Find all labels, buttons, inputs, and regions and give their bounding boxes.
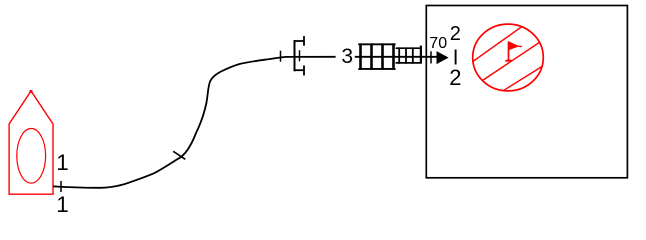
tee marker T1 (red pentagon) xyxy=(9,91,53,194)
separator line between labels 2 and 2 xyxy=(455,50,457,65)
bracket top arm tick xyxy=(303,36,305,46)
bracket bottom arm tick xyxy=(303,66,305,76)
small ladder end bar xyxy=(420,46,422,64)
bracket bottom arm xyxy=(295,69,305,71)
big ladder bars xyxy=(359,43,362,69)
label 70 xyxy=(429,35,447,53)
wire W1 (curved path from tee to straight run) xyxy=(53,57,336,188)
tee apex dot xyxy=(29,90,32,93)
flag pole xyxy=(508,42,510,61)
flag pennant xyxy=(509,41,520,50)
bracket top arm xyxy=(295,40,305,42)
wire W2 (from label 3 to arrow) xyxy=(355,56,446,58)
bracket symbol (spine) xyxy=(294,40,296,71)
tick mark on curve xyxy=(173,151,185,159)
label 1 (upper, at tee) xyxy=(56,150,68,176)
green G1 (red hatched circle) xyxy=(473,24,544,91)
hatch lines inside green xyxy=(468,25,543,91)
label 2 (upper) xyxy=(450,23,461,46)
small ladder bars xyxy=(398,47,400,63)
tee ellipse xyxy=(17,129,46,184)
tick mark at tee connection xyxy=(60,181,62,192)
label 1 (lower, at tee) xyxy=(56,192,68,218)
flag base xyxy=(505,60,511,62)
bracket middle tick xyxy=(299,50,301,61)
label 3 (on wire) xyxy=(341,45,353,69)
arrowhead A1 xyxy=(437,52,448,63)
label 2 (lower) xyxy=(449,65,461,91)
tick mark before bracket xyxy=(280,51,282,62)
small ladder symbol (rails) xyxy=(396,47,421,49)
tick mark inside box xyxy=(430,51,432,63)
flag pennant tail xyxy=(519,45,523,47)
boundary box B1 xyxy=(426,6,627,178)
big ladder symbol (rails) xyxy=(358,43,395,45)
